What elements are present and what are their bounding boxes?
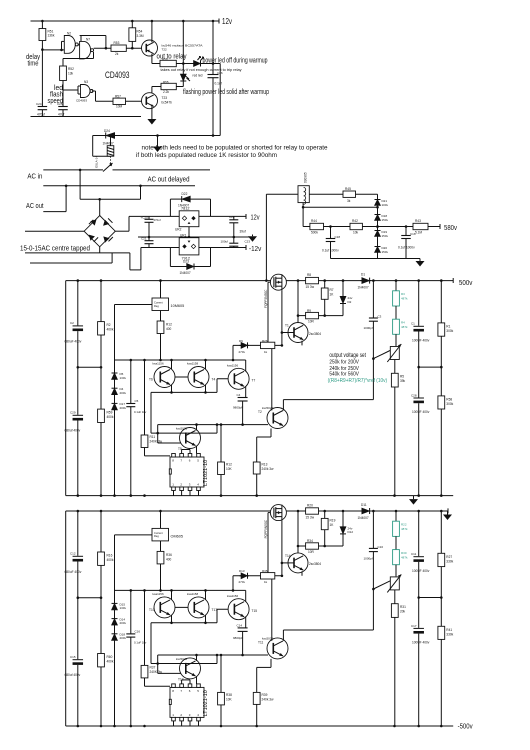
capacitor C4 9800pF	[238, 397, 248, 399]
wire HV bottom rail	[66, 725, 454, 727]
svg-text:R19: R19	[330, 518, 336, 522]
svg-text:Reg: Reg	[154, 534, 159, 538]
node rail junctions	[77, 510, 80, 513]
svg-text:LT1021-10: LT1021-10	[203, 460, 209, 486]
resistor R19	[324, 511, 326, 518]
svg-text:330k: 330k	[446, 560, 453, 564]
svg-text:C17: C17	[411, 624, 417, 628]
svg-text:((R8+R9+R7)/R7)*vref (10v): ((R8+R9+R7)/R7)*vref (10v)	[328, 378, 388, 384]
svg-text:470uf: 470uf	[37, 113, 45, 117]
svg-text:487k: 487k	[401, 555, 408, 559]
wire sense line	[283, 629, 373, 631]
capacitor C23	[233, 237, 235, 243]
svg-text:R41: R41	[446, 628, 452, 632]
earth arrow on rail	[447, 508, 449, 513]
svg-text:15 3w: 15 3w	[306, 285, 315, 289]
svg-text:R36: R36	[166, 553, 172, 557]
svg-text:1k: 1k	[264, 580, 268, 584]
resistor R16	[100, 511, 102, 552]
svg-text:1N4007: 1N4007	[103, 141, 114, 145]
transistor T5	[157, 425, 159, 443]
capacitor C14 9800pF	[238, 627, 248, 629]
resistor R42	[350, 223, 362, 229]
svg-text:R37: R37	[150, 665, 156, 669]
svg-text:R5: R5	[400, 375, 404, 379]
svg-text:D12: D12	[348, 530, 354, 534]
svg-text:250k for 200V: 250k for 200V	[329, 360, 359, 366]
svg-text:R30: R30	[401, 551, 407, 555]
wire transformer secondary lines	[25, 230, 84, 232]
capacitor C17 100uF 400v	[418, 598, 420, 628]
resistor R57	[92, 90, 96, 92]
resistor R38	[220, 655, 222, 692]
svg-text:T11: T11	[258, 640, 263, 644]
svg-text:D24: D24	[104, 129, 110, 133]
svg-text:D1: D1	[361, 273, 365, 277]
svg-text:1000pf: 1000pf	[364, 556, 373, 560]
svg-text:9800pF: 9800pF	[233, 406, 243, 410]
svg-text:C2: C2	[70, 321, 74, 325]
resistor R60	[100, 598, 102, 654]
svg-text:T15: T15	[252, 609, 258, 613]
svg-text:R16: R16	[107, 553, 113, 557]
wire cap tie right	[419, 597, 442, 599]
svg-text:39k: 39k	[400, 379, 406, 383]
svg-text:ksa1156: ksa1156	[153, 592, 164, 596]
wire led row	[152, 63, 194, 65]
svg-text:D11: D11	[361, 503, 367, 507]
regulator 7912 UR1	[141, 247, 179, 249]
wire drive line	[233, 344, 282, 346]
svg-text:AC out delayed: AC out delayed	[148, 175, 190, 184]
svg-text:-500v: -500v	[458, 721, 473, 730]
svg-text:R27: R27	[446, 555, 452, 559]
resistor R41	[440, 598, 442, 627]
ic LT1021-10	[170, 457, 204, 487]
relay contact dashed link	[110, 156, 112, 166]
svg-text:OM605: OM605	[171, 534, 183, 538]
svg-text:C28: C28	[411, 394, 417, 398]
svg-text:T17: T17	[212, 608, 218, 612]
svg-text:200v: 200v	[120, 621, 127, 625]
transistor T10	[154, 597, 175, 618]
resistor R45	[343, 191, 356, 197]
svg-text:R59: R59	[107, 411, 113, 415]
bridge rectifier BR1	[84, 216, 115, 247]
wire transformer bottom tap	[302, 203, 304, 208]
zener D17 200v	[112, 403, 118, 410]
svg-text:10R: 10R	[308, 550, 315, 554]
wire AC out stub	[43, 211, 66, 213]
capacitor C16	[405, 227, 407, 236]
svg-text:R53: R53	[114, 41, 120, 45]
pot P1	[390, 347, 399, 360]
resistor R31	[394, 590, 396, 604]
diode D1 series	[362, 278, 370, 284]
svg-text:2sc3804: 2sc3804	[309, 562, 321, 566]
resistor R22 487k	[395, 511, 397, 521]
wire bridge feeds	[79, 170, 81, 199]
svg-text:D22: D22	[182, 192, 188, 196]
wire bridge output	[115, 230, 129, 232]
ground 12v regs	[252, 235, 254, 237]
wire AC out delayed line	[43, 185, 195, 187]
resistor R9	[297, 281, 299, 316]
svg-text:150v: 150v	[382, 250, 389, 254]
resistor R27	[440, 511, 442, 553]
wire led column to relay	[219, 64, 221, 136]
svg-text:C24: C24	[36, 102, 42, 106]
diode D18 150v	[375, 215, 381, 221]
svg-text:400: 400	[166, 327, 172, 331]
transistor T22	[142, 40, 158, 56]
svg-text:500v: 500v	[459, 278, 473, 287]
zener D12 24v	[342, 511, 344, 527]
resistor R53	[94, 47, 111, 49]
svg-text:150v: 150v	[382, 218, 389, 222]
wire gate and source	[268, 512, 270, 514]
svg-text:CD4093: CD4093	[76, 99, 87, 103]
svg-text:R31: R31	[400, 605, 406, 609]
svg-text:R12: R12	[226, 463, 232, 467]
resistor R34	[297, 511, 299, 546]
svg-text:G5LA-14: G5LA-14	[95, 156, 99, 168]
nand gate N7	[78, 44, 80, 46]
pot P1	[390, 577, 399, 590]
transistor T17	[175, 606, 194, 608]
ic LT1021-10	[170, 687, 204, 717]
wire HV top rail	[66, 280, 454, 282]
svg-text:2sc3804: 2sc3804	[309, 332, 321, 336]
svg-text:R26: R26	[262, 339, 268, 343]
svg-text:400k: 400k	[107, 415, 114, 419]
svg-text:1000pf: 1000pf	[364, 326, 373, 330]
svg-text:1k: 1k	[264, 350, 268, 354]
svg-text:400k: 400k	[107, 558, 114, 562]
ground HV bottom	[413, 496, 415, 500]
svg-text:330k: 330k	[446, 633, 453, 637]
wire emitter row	[151, 622, 217, 624]
ground relay	[157, 136, 159, 147]
svg-text:ksa1156: ksa1156	[227, 594, 238, 598]
resistor R37 240K 3w	[144, 590, 146, 665]
mosfet M1	[270, 274, 286, 290]
svg-text:FQPF9N50C: FQPF9N50C	[264, 519, 268, 538]
svg-text:R52: R52	[68, 67, 74, 71]
zener D5 130v	[112, 373, 118, 380]
svg-text:Reg: Reg	[154, 304, 159, 308]
svg-text:R56: R56	[162, 57, 168, 61]
svg-text:47uf: 47uf	[58, 113, 64, 117]
wire transformer feed	[266, 193, 298, 195]
resistor R30 487k	[393, 550, 400, 565]
svg-text:C1: C1	[411, 322, 415, 326]
diode D24	[106, 133, 115, 139]
svg-text:C16: C16	[135, 629, 141, 633]
svg-text:flashing power led solid after: flashing power led solid after warmup	[183, 89, 269, 96]
relay switch contact	[103, 163, 113, 172]
wire 12v reg input	[129, 215, 179, 217]
resistor R35	[261, 573, 275, 579]
svg-text:R58: R58	[446, 398, 452, 402]
svg-text:C22: C22	[229, 215, 235, 219]
resistor R44	[303, 226, 310, 228]
resistor R58	[440, 367, 442, 396]
svg-text:R43: R43	[415, 219, 421, 223]
resistor R13	[253, 462, 260, 474]
resistor R20	[306, 508, 319, 514]
svg-text:R44: R44	[311, 219, 317, 223]
svg-text:9800pF: 9800pF	[233, 636, 243, 640]
svg-text:R3: R3	[401, 292, 405, 296]
svg-text:3.3M: 3.3M	[137, 34, 144, 38]
svg-text:200v: 200v	[120, 636, 127, 640]
node rail junctions	[41, 20, 44, 23]
capacitor C15	[77, 598, 79, 660]
svg-text:LT1021-10: LT1021-10	[203, 690, 209, 716]
svg-text:ksc5026: ksc5026	[176, 427, 188, 431]
wire base feed line	[115, 359, 246, 361]
svg-text:400k: 400k	[107, 660, 114, 664]
svg-text:0.1uf 1000v: 0.1uf 1000v	[322, 249, 339, 253]
svg-text:C15: C15	[70, 655, 76, 659]
svg-text:C3: C3	[378, 315, 382, 319]
svg-text:680uF 400v: 680uF 400v	[65, 570, 82, 574]
wire aux line	[151, 432, 217, 434]
svg-text:output voltage set: output voltage set	[329, 352, 366, 359]
wire -12v out	[199, 247, 246, 249]
resistor R55	[161, 83, 176, 89]
svg-text:AC in: AC in	[27, 171, 42, 180]
svg-text:R35: R35	[262, 569, 268, 573]
capacitor C3 1000pf	[372, 281, 374, 318]
svg-text:CD4093: CD4093	[105, 70, 130, 80]
ground multiplier	[419, 259, 421, 262]
capacitor C1 100uF 400v	[418, 281, 420, 326]
svg-text:2k: 2k	[115, 52, 119, 56]
transistor T1 2sc3804	[288, 323, 308, 343]
wire HV bottom rail	[66, 495, 454, 497]
svg-text:C23: C23	[245, 239, 251, 243]
svg-text:13k: 13k	[68, 72, 74, 76]
svg-text:270v: 270v	[239, 580, 246, 584]
zener D4 200v	[112, 388, 118, 395]
svg-text:200v: 200v	[120, 391, 127, 395]
svg-text:090905: 090905	[304, 172, 308, 183]
resistor R3 487k	[395, 281, 397, 291]
led red flashing	[182, 21, 184, 74]
transistor T14 2sc3804	[288, 553, 308, 573]
transistor T13	[157, 655, 159, 673]
capacitor C2	[77, 281, 79, 326]
svg-text:15 3w: 15 3w	[306, 515, 315, 519]
svg-text:ksa1156: ksa1156	[227, 363, 238, 367]
resistor R36	[160, 541, 162, 552]
svg-text:540k for 560V: 540k for 560V	[329, 371, 359, 377]
svg-text:R13: R13	[262, 463, 268, 467]
svg-text:R38: R38	[226, 693, 232, 697]
svg-text:100UF 400v: 100UF 400v	[412, 410, 430, 414]
capacitor C26 0.1uf	[212, 21, 214, 75]
wire drive line	[233, 575, 282, 577]
capacitor C5 0.1uF 1kv	[130, 360, 132, 404]
wire ic to diode stack	[115, 534, 153, 536]
diode D21b 100v	[377, 194, 379, 199]
relay RL1 coil	[92, 136, 94, 157]
ground T23	[151, 106, 153, 113]
resistor R59	[100, 367, 102, 409]
svg-text:1N4007: 1N4007	[358, 286, 369, 290]
capacitor C28 100uF 400v	[418, 367, 420, 397]
svg-text:T7: T7	[252, 379, 256, 383]
svg-text:680uF 400v: 680uF 400v	[65, 340, 82, 344]
svg-text:R11: R11	[150, 435, 156, 439]
transistor T23	[151, 87, 153, 95]
wire AC in line	[43, 169, 103, 171]
transistor T2	[257, 436, 271, 438]
svg-text:487k: 487k	[401, 325, 408, 329]
svg-text:ksc5026: ksc5026	[176, 657, 188, 661]
svg-text:1N4007: 1N4007	[180, 271, 191, 275]
diode D20 150v	[375, 247, 381, 253]
resistor R51	[41, 21, 43, 29]
svg-text:R4: R4	[401, 321, 405, 325]
svg-text:487k: 487k	[401, 297, 408, 301]
svg-text:10K: 10K	[226, 467, 233, 471]
svg-text:1N4007: 1N4007	[358, 516, 369, 520]
wire left bus	[65, 511, 67, 726]
capacitor C25	[58, 106, 68, 108]
svg-text:C12: C12	[70, 551, 76, 555]
svg-text:bc546 replace BC557ATA: bc546 replace BC557ATA	[162, 44, 203, 48]
svg-text:R55: R55	[163, 80, 169, 84]
resistor R52	[62, 59, 64, 67]
svg-text:1N4007: 1N4007	[178, 204, 189, 208]
wire oscillator bottom rail	[31, 116, 142, 118]
svg-text:R22: R22	[401, 522, 407, 526]
resistor R1	[440, 281, 442, 323]
svg-text:if both leds populated reduce: if both leds populated reduce 1K resisto…	[136, 152, 277, 159]
capacitor C16 0.1uF 1kv	[130, 590, 132, 634]
wire aux line	[151, 663, 217, 665]
svg-text:R60: R60	[107, 655, 113, 659]
zener D18 200v	[112, 634, 118, 641]
capacitor C29	[77, 367, 79, 415]
svg-text:UR2: UR2	[175, 228, 182, 232]
svg-text:R8: R8	[307, 273, 311, 277]
svg-text:100UF 400v: 100UF 400v	[412, 339, 430, 343]
transformer TR1 inverter	[298, 186, 309, 203]
resistor R39	[253, 692, 260, 704]
mosfet M2	[270, 505, 286, 521]
svg-text:power led off during warmup: power led off during warmup	[203, 57, 268, 64]
svg-text:10M: 10M	[116, 105, 123, 109]
svg-text:580v: 580v	[444, 223, 457, 232]
regulator 7812 UR2	[179, 211, 199, 227]
capacitor C24	[38, 106, 48, 108]
svg-text:20k: 20k	[400, 610, 406, 614]
svg-text:10K: 10K	[226, 698, 233, 702]
svg-text:R45: R45	[345, 187, 351, 191]
svg-text:N3: N3	[84, 80, 88, 84]
svg-text:FQPF9N50C: FQPF9N50C	[264, 289, 268, 308]
diode D9 270v	[241, 342, 248, 348]
nand gate N2	[42, 49, 61, 51]
wire driver base line	[158, 654, 268, 656]
svg-text:C14: C14	[237, 623, 243, 627]
node rail junctions	[77, 279, 80, 282]
wire emitter row	[151, 391, 217, 393]
svg-text:R12: R12	[166, 323, 172, 327]
wire transformer out	[309, 193, 343, 195]
resistor R8	[306, 277, 319, 283]
svg-text:time: time	[28, 58, 39, 67]
zener D2 24v	[342, 281, 344, 297]
transistor T4	[175, 376, 194, 378]
resistor R26	[261, 342, 275, 348]
svg-text:ksa1158: ksa1158	[187, 362, 198, 366]
svg-text:C18: C18	[335, 235, 341, 239]
resistor R11 240K 3w	[144, 360, 146, 435]
svg-text:10M605: 10M605	[171, 304, 185, 308]
wire left bus	[65, 281, 67, 496]
svg-text:R1: R1	[446, 325, 450, 329]
wire gate and source	[268, 281, 270, 283]
svg-text:240k 3w: 240k 3w	[262, 698, 275, 702]
wire 0v line	[138, 236, 249, 238]
svg-text:N7: N7	[86, 37, 90, 41]
transistor T11	[257, 666, 271, 668]
svg-text:T23: T23	[162, 96, 168, 100]
led power	[194, 61, 201, 67]
nand gate N3	[78, 85, 81, 87]
capacitor C18	[330, 227, 332, 239]
capacitor C22	[233, 216, 235, 219]
svg-text:C10: C10	[378, 545, 384, 549]
svg-text:+C20: +C20	[141, 215, 149, 219]
svg-text:10k: 10k	[353, 231, 359, 235]
svg-text:300k: 300k	[446, 402, 453, 406]
wire pot wiper	[373, 581, 390, 589]
resistor R7	[324, 281, 326, 288]
svg-text:R42: R42	[352, 219, 358, 223]
resistor R54	[131, 21, 133, 28]
svg-text:ksa1156: ksa1156	[153, 362, 164, 366]
ic current regulator OM605	[152, 528, 169, 541]
svg-text:takes out relay if not enough: takes out relay if not enough current to…	[161, 68, 242, 72]
svg-text:500k: 500k	[311, 231, 318, 235]
wire 12v top rail	[31, 20, 220, 22]
zener D15 130v	[112, 603, 118, 610]
wire HV top rail	[66, 510, 448, 512]
svg-text:R57: R57	[115, 95, 121, 99]
svg-text:D13: D13	[239, 569, 245, 573]
svg-text:130v: 130v	[120, 376, 127, 380]
svg-text:T1: T1	[285, 324, 289, 328]
capacitor C10 1000pf	[372, 511, 374, 548]
svg-text:N2: N2	[67, 32, 71, 36]
svg-text:AC out: AC out	[26, 201, 44, 210]
svg-text:400k: 400k	[107, 328, 114, 332]
svg-text:T2: T2	[258, 410, 262, 414]
svg-text:270v: 270v	[239, 350, 246, 354]
capacitor C11 100uF 400v	[418, 511, 420, 556]
svg-text:0.1uf 1000v: 0.1uf 1000v	[398, 246, 415, 250]
wire pot wiper	[373, 351, 390, 359]
svg-text:130v: 130v	[120, 606, 127, 610]
svg-text:39uf: 39uf	[240, 229, 246, 233]
svg-text:136k: 136k	[48, 34, 55, 38]
